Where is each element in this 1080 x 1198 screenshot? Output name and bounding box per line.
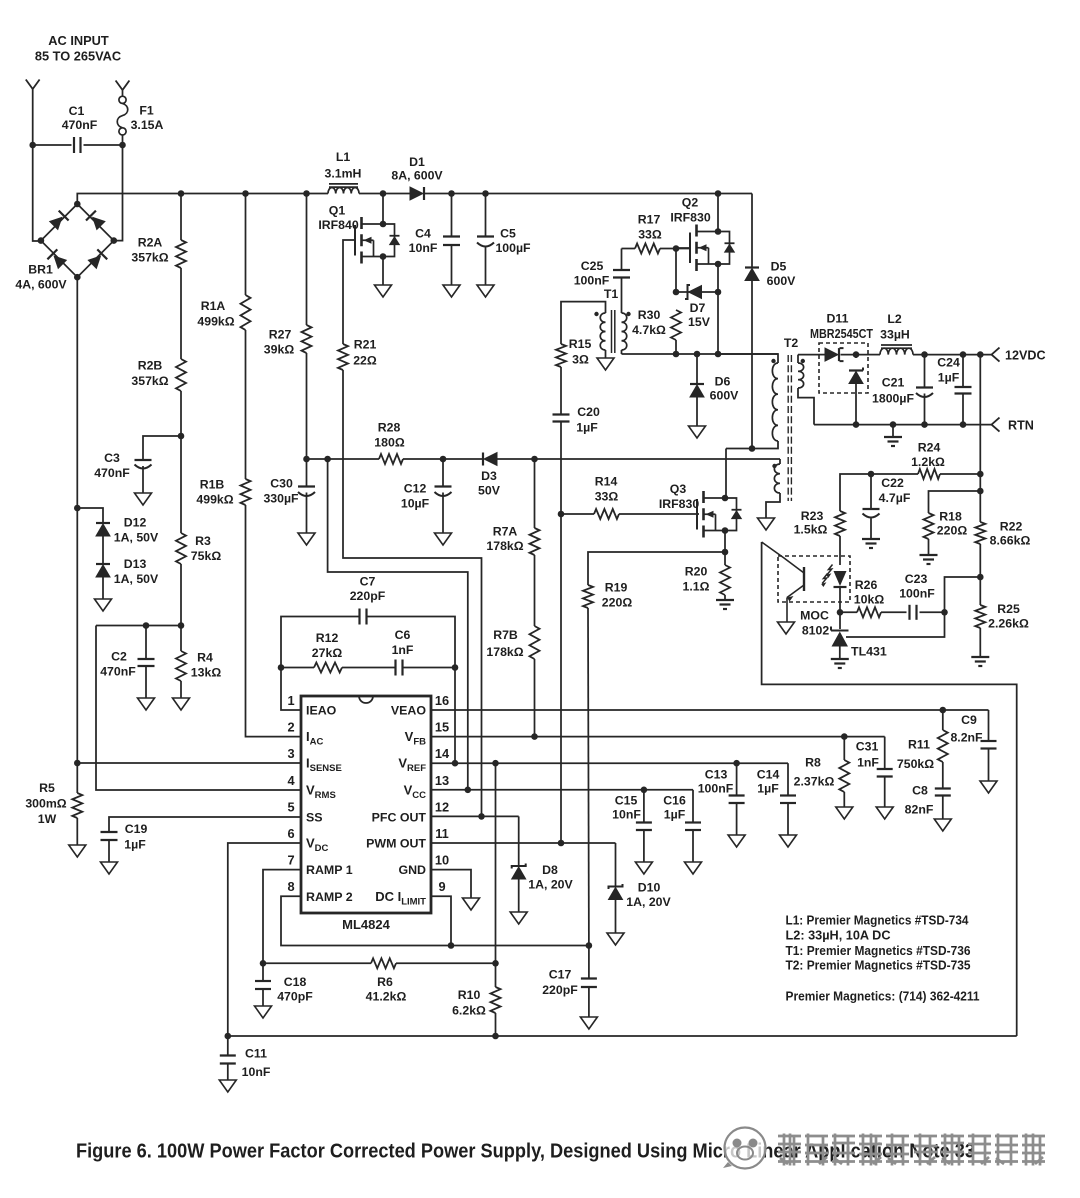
svg-text:R23: R23 (801, 509, 824, 523)
junction Q2 drain-bodydiode (715, 228, 722, 235)
svg-text:C11: C11 (245, 1047, 267, 1061)
svg-text:T1: Premier Magnetics #TSD-73: T1: Premier Magnetics #TSD-736 (786, 943, 971, 958)
capacitor C14 (780, 794, 796, 796)
wire R22 to R25 (979, 544, 981, 605)
svg-text:C20: C20 (577, 405, 600, 419)
svg-text:C13: C13 (705, 768, 728, 782)
svg-text:750kΩ: 750kΩ (897, 757, 934, 771)
junction rail Q2 drain (715, 190, 722, 197)
svg-text:499kΩ: 499kΩ (197, 315, 234, 329)
svg-text:1µF: 1µF (124, 838, 146, 852)
svg-text:R1B: R1B (200, 478, 225, 492)
junction C24 top (960, 351, 967, 358)
svg-text:33Ω: 33Ω (595, 490, 619, 504)
svg-text:1nF: 1nF (857, 756, 879, 770)
wire line B (328, 459, 468, 790)
bridge diode bottom-right (87, 255, 101, 269)
svg-text:220Ω: 220Ω (937, 524, 968, 538)
junction C21 top (921, 351, 928, 358)
ground Q1 (375, 285, 392, 297)
svg-text:C2: C2 (111, 650, 127, 664)
svg-text:1A, 20V: 1A, 20V (528, 878, 573, 892)
svg-text:R30: R30 (638, 308, 661, 322)
wire pin12 PFC OUT row (431, 815, 519, 817)
svg-text:3.1mH: 3.1mH (325, 167, 362, 181)
junction rail Q1 drain (380, 190, 387, 197)
svg-text:R25: R25 (997, 602, 1020, 616)
svg-text:L1: Premier Magnetics #TSD-73: L1: Premier Magnetics #TSD-734 (786, 913, 970, 928)
T1 phase dot right (626, 312, 630, 316)
capacitor C31 (877, 768, 893, 770)
ground MOC emitter (778, 622, 795, 634)
wire pin6 VDC (228, 843, 301, 1036)
wire R2A-R2B (180, 268, 182, 359)
wire C21 (924, 355, 926, 388)
wire R20 bottom (724, 595, 726, 599)
wire TL431 anode (839, 647, 841, 659)
junction R18 row (977, 488, 984, 495)
junction rail C5 (482, 190, 489, 197)
resistor R12 (314, 663, 342, 673)
ground T2 secondary (758, 518, 775, 530)
bridge diode bottom-left (53, 255, 67, 269)
svg-text:C16: C16 (663, 794, 686, 808)
wire R1B to pin2 IAC (246, 505, 302, 737)
wire Q2 source column (717, 264, 719, 354)
svg-text:TL431: TL431 (851, 645, 887, 659)
wire C20 to R14 node (560, 422, 562, 515)
IC ML4824 body (301, 696, 431, 913)
svg-text:357kΩ: 357kΩ (131, 374, 168, 388)
wire R21 to PFC loop (line A) (343, 370, 482, 817)
wire comp to VREF (454, 668, 456, 764)
svg-text:470nF: 470nF (62, 118, 98, 132)
svg-text:T2: Premier Magnetics #TSD-73: T2: Premier Magnetics #TSD-735 (786, 958, 971, 973)
svg-text:L1: L1 (336, 150, 351, 164)
capacitor C23 (908, 605, 910, 620)
svg-text:14: 14 (435, 746, 450, 761)
svg-text:BR1: BR1 (28, 263, 53, 277)
svg-text:R8: R8 (805, 756, 821, 770)
ground R5 (69, 845, 86, 857)
junction VREF-R10 column (492, 760, 499, 767)
svg-text:27kΩ: 27kΩ (312, 646, 343, 660)
svg-text:R3: R3 (195, 534, 211, 548)
svg-text:2: 2 (287, 720, 294, 735)
ground R4 (173, 698, 190, 710)
svg-text:100µF: 100µF (495, 241, 531, 255)
diode D6 (690, 383, 704, 385)
svg-text:4: 4 (287, 773, 295, 788)
svg-text:1800µF: 1800µF (872, 392, 914, 406)
wire R17 right (660, 248, 690, 250)
capacitor C7 (358, 609, 360, 625)
junction pin3 ISENSE (74, 760, 81, 767)
junction C22 top (868, 471, 875, 478)
wire MOC collector loop (762, 542, 1017, 1036)
junction R8 top (841, 733, 848, 740)
D11 dashed box (819, 343, 868, 393)
junction R25 top (977, 574, 984, 581)
resistor R21 (338, 344, 348, 370)
capacitor C1 (73, 137, 75, 153)
resistor R15 (556, 344, 566, 367)
capacitor C15 (636, 821, 652, 823)
svg-text:8: 8 (287, 879, 294, 894)
capacitor C9 (981, 740, 997, 742)
svg-text:75kΩ: 75kΩ (191, 549, 222, 563)
svg-text:100nF: 100nF (698, 782, 734, 796)
node RTN output (992, 418, 1000, 432)
inductor L2 (880, 348, 913, 354)
resistor R7B (530, 626, 540, 659)
transistor Q2 (695, 225, 698, 237)
wire T2 primary top (718, 354, 778, 363)
wire R26-C23 row (840, 611, 857, 613)
svg-text:RAMP 1: RAMP 1 (306, 863, 353, 877)
junction C13 top (733, 760, 740, 767)
wire RTN row (814, 424, 991, 426)
wire Q2 drain (717, 194, 719, 232)
wire R8 (843, 737, 845, 760)
wire L2 left (868, 354, 880, 356)
junction D11b bottom (853, 421, 860, 428)
svg-text:R18: R18 (939, 510, 962, 524)
T2 secondary bottom phase dot (772, 464, 776, 468)
wire C17 (588, 946, 590, 979)
svg-text:D3: D3 (481, 469, 497, 483)
svg-text:13: 13 (435, 773, 449, 788)
wire D11 row (819, 354, 825, 356)
ground R25 (earth) (971, 656, 989, 658)
resistor R23 (835, 511, 845, 536)
resistor R25 (975, 605, 985, 628)
junction R19 row (722, 549, 729, 556)
svg-text:1.2kΩ: 1.2kΩ (911, 455, 945, 469)
junction rail R27 (303, 190, 310, 197)
junction R17 gate node (673, 245, 680, 252)
wire C19 ground (108, 840, 110, 862)
svg-text:Premier Magnetics: (714) 362-4: Premier Magnetics: (714) 362-4211 (786, 989, 980, 1004)
wire R2A top (180, 194, 182, 241)
svg-text:C18: C18 (284, 975, 307, 989)
wire R7A-R7B (534, 555, 536, 626)
optocoupler LED (834, 571, 847, 586)
ground C15 (635, 862, 652, 874)
wire pin10 GND (431, 870, 471, 898)
junction rail C4 (448, 190, 455, 197)
svg-text:R7A: R7A (493, 525, 518, 539)
wire T1 left bottom to ground (605, 350, 607, 358)
zener diode D10 (609, 884, 623, 889)
svg-text:Q3: Q3 (670, 482, 687, 496)
capacitor C17 (581, 977, 597, 979)
junction D11 center (853, 351, 860, 358)
wire pin7 RAMP1 (263, 870, 301, 964)
ground C4 (443, 285, 460, 297)
junction C23 right node (941, 609, 948, 616)
svg-text:3: 3 (287, 746, 294, 761)
junction D3 row left (303, 456, 310, 463)
wire C13 (736, 763, 738, 795)
svg-text:1A, 50V: 1A, 50V (114, 531, 159, 545)
svg-text:C5: C5 (500, 227, 516, 241)
svg-text:D1: D1 (409, 155, 425, 169)
svg-text:R22: R22 (1000, 520, 1023, 534)
wire T2 primary bottom (726, 441, 778, 449)
svg-text:C23: C23 (905, 572, 928, 586)
svg-text:C24: C24 (937, 356, 960, 370)
svg-text:D11: D11 (827, 312, 849, 326)
wire C16 (692, 790, 694, 823)
svg-text:PWM OUT: PWM OUT (366, 837, 426, 851)
wire C3 branch (143, 436, 181, 460)
svg-text:82nF: 82nF (905, 803, 934, 817)
svg-text:D5: D5 (771, 260, 787, 274)
junction R11 top (940, 707, 947, 714)
junction D7 left (673, 289, 680, 296)
wire C9 (988, 710, 990, 741)
svg-text:8.66kΩ: 8.66kΩ (990, 534, 1031, 548)
junction comp left (278, 664, 285, 671)
resistor R30 (671, 310, 681, 340)
ground D13 (95, 599, 112, 611)
ground RTN (earth) (884, 436, 902, 438)
wire T1 right bottom (621, 350, 623, 354)
wire Q2 gate (676, 247, 690, 249)
junction R7B bottom (531, 733, 538, 740)
wire R23 to LED (839, 536, 841, 565)
junction R7A top (531, 456, 538, 463)
junction Q1 drain-bodydiode (380, 221, 387, 228)
wire T1 left top (561, 302, 606, 344)
wire pin11 PWM OUT row (431, 842, 616, 844)
svg-text:C6: C6 (395, 628, 411, 642)
ground T1 (597, 358, 614, 370)
resistor R28 (379, 454, 403, 464)
svg-text:R14: R14 (595, 475, 618, 489)
wire R1A-R1B (245, 330, 247, 479)
wire D6 (696, 354, 698, 384)
wire pin14 VREF row (431, 762, 788, 764)
ground C13 (728, 835, 745, 847)
svg-text:180Ω: 180Ω (374, 436, 405, 450)
junction C1 right (119, 142, 126, 149)
ground C31 (876, 807, 893, 819)
transistor Q3 (702, 491, 705, 503)
svg-text:C25: C25 (581, 259, 604, 273)
wire C15 (643, 790, 645, 823)
ground C11 (219, 1080, 236, 1092)
resistor R20 (720, 565, 730, 595)
zener diode D7 (685, 285, 690, 299)
junction R26 node (837, 609, 844, 616)
svg-text:C31: C31 (856, 740, 879, 754)
svg-text:R6: R6 (377, 975, 393, 989)
resistor R22 (975, 522, 985, 544)
junction Q1 source-bodydiode (380, 253, 387, 260)
diode D11a (825, 348, 838, 361)
svg-text:7: 7 (287, 853, 294, 868)
svg-text:R1A: R1A (201, 299, 226, 313)
wire C22 (870, 474, 872, 509)
transformer T2 secondary bottom winding (774, 464, 780, 493)
junction C24 bottom (960, 421, 967, 428)
svg-text:33µH: 33µH (880, 328, 910, 342)
capacitor C20 (553, 413, 570, 415)
svg-text:L2: 33µH, 10A DC: L2: 33µH, 10A DC (786, 928, 891, 943)
junction comp right (452, 664, 459, 671)
wire C1 row (33, 144, 72, 146)
wire T2 sec-top bottom (798, 388, 814, 425)
diode D11b (849, 369, 863, 371)
wire AC right to fuse (122, 90, 124, 96)
junction rail R2A (178, 190, 185, 197)
wire RTN ground stub (892, 425, 894, 436)
resistor R3 (176, 533, 186, 564)
svg-text:4A, 600V: 4A, 600V (15, 278, 67, 292)
junction Q3 drain-bodydiode (722, 495, 729, 502)
svg-text:50V: 50V (478, 484, 501, 498)
wire R30 bottom (675, 340, 677, 354)
wire C8 ground (942, 796, 944, 820)
svg-text:41.2kΩ: 41.2kΩ (366, 990, 407, 1004)
svg-text:IEAO: IEAO (306, 704, 337, 718)
svg-text:100nF: 100nF (899, 587, 935, 601)
wire R3 top (180, 436, 182, 533)
junction R14 node (558, 511, 565, 518)
svg-text:F1: F1 (139, 104, 154, 118)
resistor R19 (583, 585, 593, 608)
svg-text:100nF: 100nF (574, 274, 610, 288)
wire C24 (962, 355, 964, 387)
svg-text:MBR2545CT: MBR2545CT (810, 327, 873, 341)
junction C1 left (29, 142, 36, 149)
bridge diode top-right (92, 217, 106, 231)
svg-text:R24: R24 (918, 441, 941, 455)
svg-text:C21: C21 (882, 376, 905, 390)
wire C18 (262, 963, 264, 981)
svg-text:499kΩ: 499kΩ (196, 493, 233, 507)
svg-text:2.37kΩ: 2.37kΩ (794, 775, 835, 789)
junction R4 top (178, 622, 185, 629)
wire D12 branch (77, 508, 103, 523)
svg-text:C30: C30 (270, 477, 293, 491)
svg-text:600V: 600V (767, 274, 797, 288)
wire D3 row (307, 458, 380, 460)
diode D3 (482, 453, 484, 466)
ground C22 (earth) (862, 538, 880, 540)
svg-text:4.7µF: 4.7µF (879, 491, 911, 505)
svg-text:16: 16 (435, 693, 449, 708)
junction line B (324, 456, 331, 463)
diode D5 (745, 266, 759, 268)
svg-text:R27: R27 (269, 328, 292, 342)
junction R24 right (977, 471, 984, 478)
transformer T2 core (787, 355, 789, 501)
svg-text:C19: C19 (125, 822, 148, 836)
wire R27 top (306, 194, 308, 326)
wire R7B to VFB (534, 659, 536, 737)
capacitor C16 (685, 821, 701, 823)
wire pin4 VRMS (96, 626, 301, 791)
svg-text:15: 15 (435, 720, 449, 735)
wire D11b (855, 355, 857, 358)
ground C14 (780, 835, 797, 847)
wire T2 sec-bottom top (779, 459, 781, 464)
wire R18 row (929, 491, 981, 513)
wire 12VDC sense column (979, 355, 981, 522)
wire pin3 ISENSE row (77, 762, 301, 764)
transformer T1 left winding (600, 313, 605, 350)
wire D13 to ground (102, 577, 104, 599)
svg-text:D6: D6 (715, 375, 731, 389)
svg-text:MOC: MOC (800, 609, 829, 623)
svg-text:IRF830: IRF830 (670, 211, 710, 225)
wire R19 row (588, 552, 725, 585)
transformer T1 right winding (622, 313, 627, 350)
wire R15-C20 (560, 367, 562, 415)
capacitor C8 (935, 787, 951, 789)
transformer T2 secondary top winding (798, 363, 804, 388)
wire D5 column (751, 194, 753, 268)
wire R24 row (940, 473, 980, 475)
wire pin13 VCC row (431, 789, 693, 791)
junction lineA-PFC (478, 813, 485, 820)
svg-text:1A, 50V: 1A, 50V (114, 572, 159, 586)
svg-text:178kΩ: 178kΩ (486, 539, 523, 553)
capacitor C3 (135, 459, 152, 461)
svg-text:220pF: 220pF (542, 983, 578, 997)
junction D7 right (715, 289, 722, 296)
svg-text:R28: R28 (378, 421, 401, 435)
svg-text:C9: C9 (961, 713, 977, 727)
svg-text:220Ω: 220Ω (602, 596, 633, 610)
ground TL431 (earth) (831, 658, 849, 660)
bridge BR1 frame (41, 204, 114, 277)
resistor R8 (839, 760, 849, 792)
svg-text:C17: C17 (549, 968, 572, 982)
wire R2B to C3 node (180, 391, 182, 436)
svg-text:1µF: 1µF (664, 808, 686, 822)
svg-text:RAMP 2: RAMP 2 (306, 890, 353, 904)
wire D10 (615, 843, 617, 886)
svg-text:PFC OUT: PFC OUT (372, 811, 427, 825)
capacitor C6 (394, 660, 396, 676)
svg-text:R15: R15 (569, 337, 592, 351)
transformer T1 core (611, 310, 613, 353)
ground C2 (138, 698, 155, 710)
bridge vertex dots (74, 201, 81, 208)
svg-text:33Ω: 33Ω (638, 228, 662, 242)
junction R30 bottom (673, 351, 680, 358)
svg-text:8A, 600V: 8A, 600V (391, 169, 443, 183)
watermark logo and text (725, 1128, 766, 1169)
diode D1 (410, 187, 423, 200)
wire R30 top (675, 249, 677, 293)
wire R3 to R4 node (180, 564, 182, 626)
capacitor C2 (138, 658, 155, 660)
ground D8 (510, 912, 527, 924)
svg-text:C12: C12 (404, 482, 427, 496)
svg-text:D10: D10 (638, 881, 661, 895)
junction C3 node (178, 433, 185, 440)
wire C11 (227, 1036, 229, 1056)
resistor R2B (176, 359, 186, 391)
wire pin1 IEAO (281, 668, 301, 711)
T2 primary phase dot (771, 359, 775, 363)
wire R10 bottom (495, 1013, 497, 1036)
